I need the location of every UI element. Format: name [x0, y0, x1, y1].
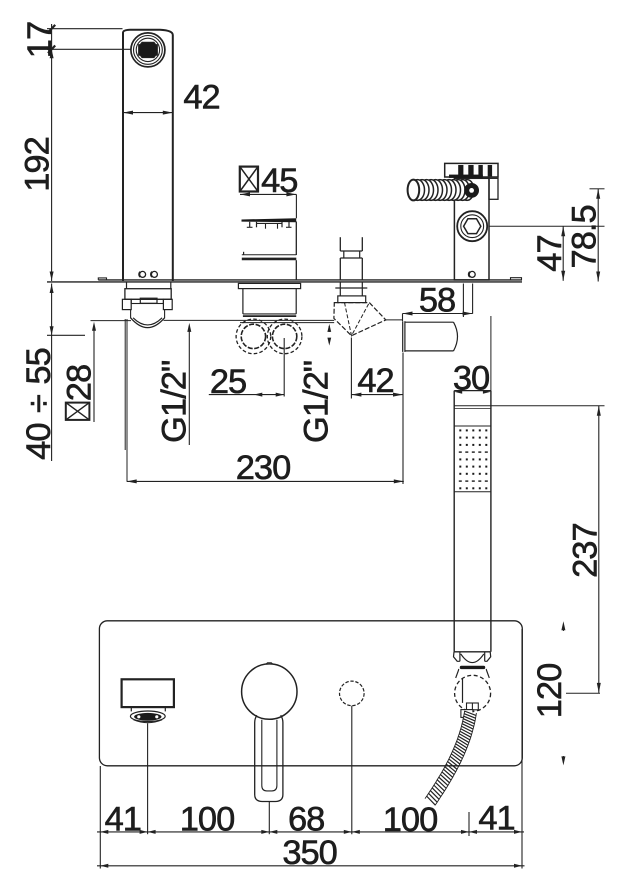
svg-text:100: 100	[180, 800, 235, 838]
svg-text:17: 17	[21, 22, 59, 58]
svg-text:G1/2": G1/2"	[156, 361, 194, 443]
svg-text:100: 100	[383, 801, 438, 839]
svg-text:230: 230	[236, 449, 291, 487]
svg-text:42: 42	[183, 79, 219, 117]
svg-text:28: 28	[60, 365, 98, 401]
svg-text:G1/2": G1/2"	[298, 361, 336, 443]
svg-text:350: 350	[282, 834, 337, 872]
svg-text:25: 25	[210, 363, 246, 401]
svg-text:68: 68	[288, 800, 324, 838]
svg-text:120: 120	[531, 664, 569, 719]
svg-text:41: 41	[478, 799, 514, 837]
svg-text:42: 42	[357, 362, 393, 400]
svg-text:237: 237	[566, 523, 604, 578]
svg-text:192: 192	[18, 137, 56, 192]
svg-text:41: 41	[105, 800, 141, 838]
svg-text:78.5: 78.5	[566, 205, 604, 268]
svg-text:40 ÷ 55: 40 ÷ 55	[20, 348, 58, 460]
svg-text:47: 47	[531, 235, 569, 271]
